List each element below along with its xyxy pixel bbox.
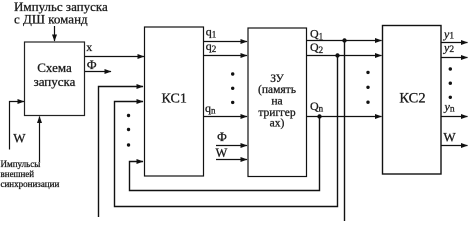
wire: q1 КС1 to ЗУ	[204, 41, 247, 43]
block: Схема запуска	[25, 42, 85, 116]
svg-text:с ДШ команд: с ДШ команд	[14, 12, 88, 27]
wire: q2 КС1 to ЗУ	[204, 55, 247, 57]
wire: Q1 feedback drop (runs off bottom edge)	[344, 41, 346, 222]
svg-text:Импульсы: Импульсы	[1, 159, 41, 169]
svg-text:W: W	[216, 146, 228, 160]
svg-text:запуска: запуска	[34, 74, 76, 89]
wire: qn КС1 to ЗУ	[204, 116, 247, 118]
svg-text:синхронизации: синхронизации	[1, 179, 60, 189]
svg-text:(память: (память	[258, 84, 296, 96]
svg-text:внешней: внешней	[1, 169, 35, 179]
wire: Q2 ЗУ to КС2	[307, 55, 382, 57]
junction Q1	[342, 38, 346, 42]
wire: Q1 feedback return into КС1	[99, 87, 144, 218]
svg-text:ах): ах)	[270, 118, 285, 130]
dots between y2 and yn	[449, 67, 452, 70]
block: ЗУ (память на триггерах)	[248, 28, 307, 177]
block: КС1	[145, 27, 204, 176]
wire: Ф output arrow	[85, 71, 111, 73]
svg-text:x: x	[86, 40, 92, 54]
wire: yn output	[441, 116, 468, 118]
dots between Q2 and Qn	[366, 71, 369, 74]
svg-text:W: W	[443, 130, 456, 145]
svg-text:КС2: КС2	[399, 91, 425, 107]
wire: y1 output	[441, 42, 468, 44]
svg-text:Схема: Схема	[37, 60, 72, 75]
wire: W input into Схема запуска left	[10, 102, 25, 150]
svg-text:W: W	[13, 131, 26, 146]
wire: Qn feedback loop into КС1	[130, 117, 320, 191]
dots between q2 and qn	[231, 72, 234, 75]
wire: y2 output	[441, 57, 468, 59]
wire: x from Схема запуска to КС1	[85, 56, 144, 58]
junction Qn	[317, 114, 321, 118]
dots feedback (left of КС1)	[127, 114, 130, 117]
wire: Q1 ЗУ to КС2	[307, 40, 382, 42]
block: КС2	[383, 26, 442, 175]
svg-text:КС1: КС1	[162, 92, 187, 107]
wire: start pulse arrow into Схема запуска top	[54, 26, 56, 41]
svg-text:Ф: Ф	[217, 130, 227, 144]
wire: external sync pulses arrow into Схема запуска bottom	[39, 117, 41, 163]
wire: W into ЗУ	[216, 159, 247, 161]
wire: Ф into ЗУ	[216, 145, 247, 147]
junction Q2	[335, 53, 339, 57]
wire: Qn ЗУ to КС2	[307, 116, 382, 118]
wire: Q2 feedback loop into КС1	[115, 56, 338, 207]
wire: W output	[441, 145, 468, 147]
svg-text:Ф: Ф	[87, 58, 97, 72]
svg-text:на: на	[271, 96, 282, 108]
